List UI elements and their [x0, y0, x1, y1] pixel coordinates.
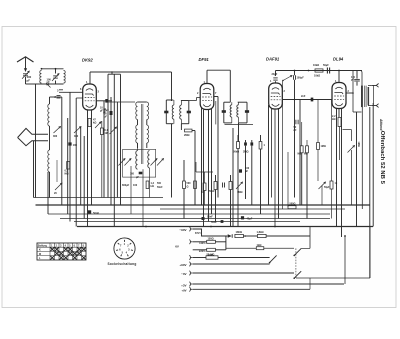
capacitor 50nF AVC — [295, 120, 297, 125]
svg-text:DAF91: DAF91 — [266, 57, 280, 62]
variable capacitor 100pF antenna — [23, 73, 28, 75]
svg-text:45µF: 45µF — [247, 218, 253, 221]
wire grid2 return down — [75, 98, 77, 227]
lower coil Le — [136, 151, 138, 170]
svg-text:50nF: 50nF — [207, 216, 213, 219]
bus line y209 — [160, 208, 345, 210]
svg-text:K: K — [39, 249, 41, 252]
wire switch to DK92 grid1 — [63, 91, 83, 93]
wires IF2 down — [238, 123, 240, 142]
resistor 1.2k osc — [146, 181, 149, 189]
oscillator core lines — [140, 104, 142, 164]
top bus DAF91 to output — [276, 70, 363, 72]
svg-text:10kΩ: 10kΩ — [314, 75, 320, 78]
resistor 180ohm — [235, 234, 244, 237]
resistor 2M IF1 — [185, 129, 193, 132]
wire transformer secondary leads — [368, 84, 372, 86]
trimmer capacitor T1 — [55, 69, 57, 74]
svg-text:kΩ: kΩ — [151, 185, 154, 188]
svg-text:DL94: DL94 — [333, 57, 344, 62]
svg-text:−3V: −3V — [181, 272, 186, 276]
wire switch feed down — [282, 81, 284, 210]
wire 48 down — [47, 172, 49, 214]
input transformer T1 — [42, 68, 64, 70]
svg-text:360: 360 — [53, 135, 58, 138]
wire faint left — [56, 160, 58, 182]
capacitor 100pF DAF91 — [293, 75, 295, 79]
bus line y205 bold — [36, 204, 371, 206]
wire DF91 pins down — [203, 110, 205, 227]
svg-text:100: 100 — [73, 144, 78, 147]
resistor 1M below DK92 — [100, 128, 103, 135]
svg-text:2MΩ: 2MΩ — [184, 134, 189, 137]
svg-text:Sockelschaltung: Sockelschaltung — [108, 262, 137, 266]
oscillator coil Ld — [147, 125, 149, 143]
wire DL94 pins down — [336, 108, 338, 227]
bus line y221 — [74, 221, 300, 223]
coil IF2 secondary — [237, 105, 239, 117]
svg-text:Akkord: Akkord — [379, 118, 383, 131]
svg-text:100: 100 — [133, 184, 138, 187]
svg-text:100pF: 100pF — [297, 77, 305, 80]
wire DF91 grid left — [189, 100, 197, 102]
capacitor 24pF — [273, 77, 277, 79]
capacitor 50nF bus2 — [202, 217, 205, 220]
resistor 1M mid — [259, 142, 262, 150]
wire grid1 return down — [69, 92, 71, 221]
svg-text:50mA: 50mA — [207, 253, 214, 256]
oscillator coil La — [136, 102, 138, 120]
svg-text:50µF: 50µF — [324, 186, 330, 189]
frame antenna diamond — [18, 128, 48, 137]
svg-text:87V=: 87V= — [195, 231, 202, 235]
resistor below DK92 — [88, 119, 91, 127]
bus line y199 — [34, 197, 164, 199]
oscillator coil Lc — [147, 102, 149, 120]
svg-text:500Ω: 500Ω — [290, 203, 296, 206]
svg-text:50µF: 50µF — [323, 64, 329, 67]
svg-text:1,8kΩ: 1,8kΩ — [257, 230, 264, 234]
svg-text:+9V: +9V — [181, 289, 186, 293]
switch bar dashed — [295, 248, 297, 278]
capacitor 50nF bus1 — [88, 210, 91, 213]
capacitor mid 2 — [250, 142, 253, 145]
capacitor 100pF output — [356, 71, 358, 79]
tube DK92 — [83, 84, 97, 110]
trimmer pair right of osc coils — [151, 159, 158, 166]
speaker jack bottom — [372, 104, 379, 108]
wire grid line DAF91 to DL94 — [283, 99, 332, 101]
wire right verticals — [294, 100, 296, 198]
svg-text:pF: pF — [245, 170, 249, 173]
antenna A1 — [17, 57, 34, 62]
capacitor IF2 right — [245, 110, 249, 113]
oscillator shield box — [123, 149, 156, 177]
svg-text:2MΩ: 2MΩ — [243, 151, 248, 154]
coil L3 — [48, 150, 50, 172]
wire DF91 anode to IF2 — [206, 70, 208, 83]
capacitor mid 1 — [244, 142, 247, 145]
capacitor 50nF bus3 — [221, 220, 224, 223]
capacitor 100pF detector — [239, 169, 242, 172]
bus line y218 — [60, 218, 330, 220]
svg-text:kΩ: kΩ — [93, 122, 96, 125]
variable capacitor C tuning left — [54, 127, 61, 134]
wire top bus corner down — [360, 71, 362, 87]
capacitor 50nF top bus — [326, 68, 328, 74]
svg-text:50kΩ: 50kΩ — [233, 151, 239, 154]
switch table — [37, 243, 86, 260]
capacitor IF1 left — [164, 111, 168, 114]
svg-text:600µF: 600µF — [122, 184, 130, 187]
svg-text:MΩ: MΩ — [65, 173, 69, 176]
switch lever power — [270, 255, 277, 262]
svg-text:DF91: DF91 — [199, 57, 210, 62]
coil IF1 secondary — [180, 105, 182, 119]
bus line y214 — [48, 213, 330, 215]
svg-text:6V: 6V — [175, 245, 179, 249]
socket circle Sockelschaltung — [114, 238, 135, 259]
wire verticals left area — [61, 97, 63, 205]
svg-text:360: 360 — [74, 135, 79, 138]
svg-text:50nF: 50nF — [211, 221, 217, 224]
capacitor 45uF bus — [241, 216, 244, 219]
wire DL94 cathode tap — [343, 129, 352, 131]
resistor 500ohm — [183, 181, 186, 189]
lower coil Lf — [148, 151, 150, 168]
output transformer TR1 — [361, 86, 363, 108]
capacitor IF1 right — [187, 111, 191, 114]
svg-text:1MΩ: 1MΩ — [357, 142, 360, 147]
resistor 1k right mid — [330, 181, 333, 189]
resistor 10k top bus — [315, 69, 323, 72]
svg-text:2nF: 2nF — [301, 95, 306, 98]
speaker jack top — [372, 84, 379, 88]
coil IF1 primary — [172, 105, 174, 119]
svg-text:1kΩ: 1kΩ — [257, 243, 262, 247]
wire y172 link — [196, 171, 213, 173]
IF transformer 2 — [224, 101, 231, 103]
tube DF91 — [200, 84, 214, 110]
wire screen feed vertical — [352, 71, 354, 113]
wire DAF91 grid top — [275, 71, 277, 77]
resistor 0.5M left — [67, 162, 70, 170]
wire DL94 screen to transformer — [346, 92, 353, 94]
tube DAF91 — [269, 83, 283, 109]
coil L2 antenna circuit — [49, 97, 51, 104]
svg-text:MΩ: MΩ — [298, 154, 302, 156]
svg-text:180Ω: 180Ω — [236, 230, 242, 234]
switch arrow DAF91 — [282, 80, 283, 81]
tube DL94 — [332, 83, 346, 109]
wire grid2 into tube — [76, 97, 83, 99]
wire oscillator verticals — [107, 74, 109, 197]
band switch contacts S1 — [59, 89, 63, 91]
capacitor 100pF osc — [139, 172, 143, 175]
svg-text:Ω: Ω — [187, 185, 189, 188]
resistor 2.2k below DL94 — [338, 118, 341, 127]
svg-text:24pF: 24pF — [272, 73, 278, 76]
coil IF2 primary — [230, 105, 232, 117]
trimmer below DK92 — [95, 122, 101, 128]
wire DL94 anode — [338, 71, 340, 83]
svg-text:+3V: +3V — [181, 283, 186, 287]
resistor left of volume pot — [203, 183, 206, 191]
variable capacitor C tuning 2 — [74, 127, 81, 134]
svg-text:Stellung: Stellung — [38, 244, 48, 247]
variable capacitor 50uF right — [319, 182, 326, 189]
wire DAF91 pins down — [271, 109, 273, 198]
wires mid verticals — [232, 128, 234, 227]
wire 500ohm riser — [287, 152, 289, 207]
resistor 1k mid power — [226, 247, 256, 249]
svg-text:pF: pF — [27, 78, 31, 82]
row 50mA — [189, 255, 192, 260]
resistor row mid x236-262 — [237, 142, 240, 149]
switch contact right upper — [294, 248, 301, 255]
svg-text:+90V: +90V — [179, 263, 186, 267]
junction arrow to frame antenna — [47, 84, 51, 88]
wires IF1 down — [171, 124, 173, 198]
resistor 500 ohm on bus — [288, 206, 296, 209]
svg-text:50nF: 50nF — [93, 211, 99, 215]
capacitor solid left — [68, 142, 71, 145]
capacitor 30pF at DK92 — [105, 99, 108, 103]
capacitor IF2 left — [222, 110, 226, 113]
wire antenna to input transformer — [25, 77, 27, 84]
bus line y226 bold — [77, 226, 373, 228]
svg-text:10kΩ: 10kΩ — [313, 64, 319, 67]
svg-text:1MΩ: 1MΩ — [321, 145, 326, 148]
oscillator coil Lb — [136, 125, 138, 143]
bottom right wiring — [309, 227, 311, 248]
svg-text:M: M — [39, 253, 41, 256]
wire DK92 anode to IF1 — [89, 72, 91, 84]
wire speaker connect — [372, 85, 374, 105]
svg-text:50nF: 50nF — [209, 190, 215, 193]
svg-text:kΩ: kΩ — [332, 118, 335, 121]
right mid resistors — [300, 146, 303, 153]
capacitor 2nF coupling — [311, 98, 314, 102]
tone potentiometer 1M — [348, 146, 355, 153]
svg-text:−90V: −90V — [179, 228, 186, 232]
wire right extra vertical — [361, 107, 363, 209]
svg-text:1M: 1M — [105, 132, 108, 135]
resistor 100ohm — [194, 181, 197, 189]
volume pot area — [214, 182, 217, 190]
resistor 1M right — [317, 143, 320, 150]
wires DK92 filament down — [87, 110, 89, 227]
svg-text:Offenbach 52 NB 5: Offenbach 52 NB 5 — [379, 131, 385, 185]
resistor 1.8k — [257, 234, 266, 237]
svg-text:50nF: 50nF — [157, 186, 163, 189]
switch contact right lower — [294, 271, 301, 278]
svg-text:150Ω: 150Ω — [208, 238, 214, 241]
rectifier metal diode — [228, 234, 232, 238]
wire left drop x35 — [35, 84, 37, 198]
svg-text:MΩ: MΩ — [304, 154, 308, 156]
trimmer osc mid — [110, 127, 117, 134]
trimmer left mid — [55, 183, 62, 190]
svg-text:500: 500 — [157, 182, 162, 185]
trimmer pair left of osc coils — [119, 159, 126, 166]
IF transformer 1 — [166, 99, 173, 101]
svg-text:DK92: DK92 — [82, 58, 93, 63]
svg-text:1MΩ: 1MΩ — [237, 191, 242, 194]
capacitor osc solid — [110, 111, 113, 115]
wire DK92 right pin — [96, 100, 112, 102]
